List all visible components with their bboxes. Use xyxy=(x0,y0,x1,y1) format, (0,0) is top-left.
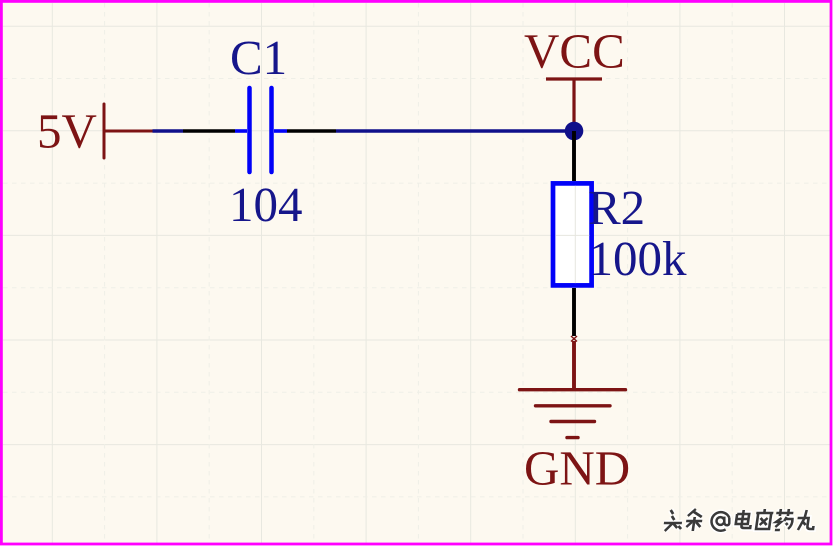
头 xyxy=(663,510,684,531)
svg-text:5V: 5V xyxy=(37,104,97,159)
watermark 头条@电卤药丸 xyxy=(663,509,816,531)
卤 xyxy=(754,509,774,529)
wire navy segment xyxy=(336,129,574,133)
svg-text:VCC: VCC xyxy=(524,24,625,79)
pin cross marker xyxy=(571,336,577,342)
svg-text:R2: R2 xyxy=(588,180,645,235)
丸 xyxy=(796,510,816,530)
svg-text:100k: 100k xyxy=(589,231,688,286)
junction node xyxy=(565,122,584,141)
capacitor C1 xyxy=(235,88,287,172)
wire black vertical xyxy=(572,288,576,336)
条 xyxy=(685,509,704,531)
ground symbol xyxy=(520,390,626,438)
power VCC symbol xyxy=(546,79,602,131)
电 xyxy=(735,510,753,528)
svg-text:104: 104 xyxy=(229,177,303,232)
ground pin xyxy=(572,341,576,389)
wire black segment xyxy=(183,129,235,133)
svg-text:C1: C1 xyxy=(230,30,287,85)
wire black vertical xyxy=(572,131,576,181)
wire navy segment xyxy=(153,129,184,133)
resistor R2 xyxy=(553,183,592,285)
wire black segment xyxy=(287,129,336,133)
药 xyxy=(774,509,794,530)
svg-text:GND: GND xyxy=(524,441,630,496)
port 5V symbol xyxy=(104,104,153,158)
